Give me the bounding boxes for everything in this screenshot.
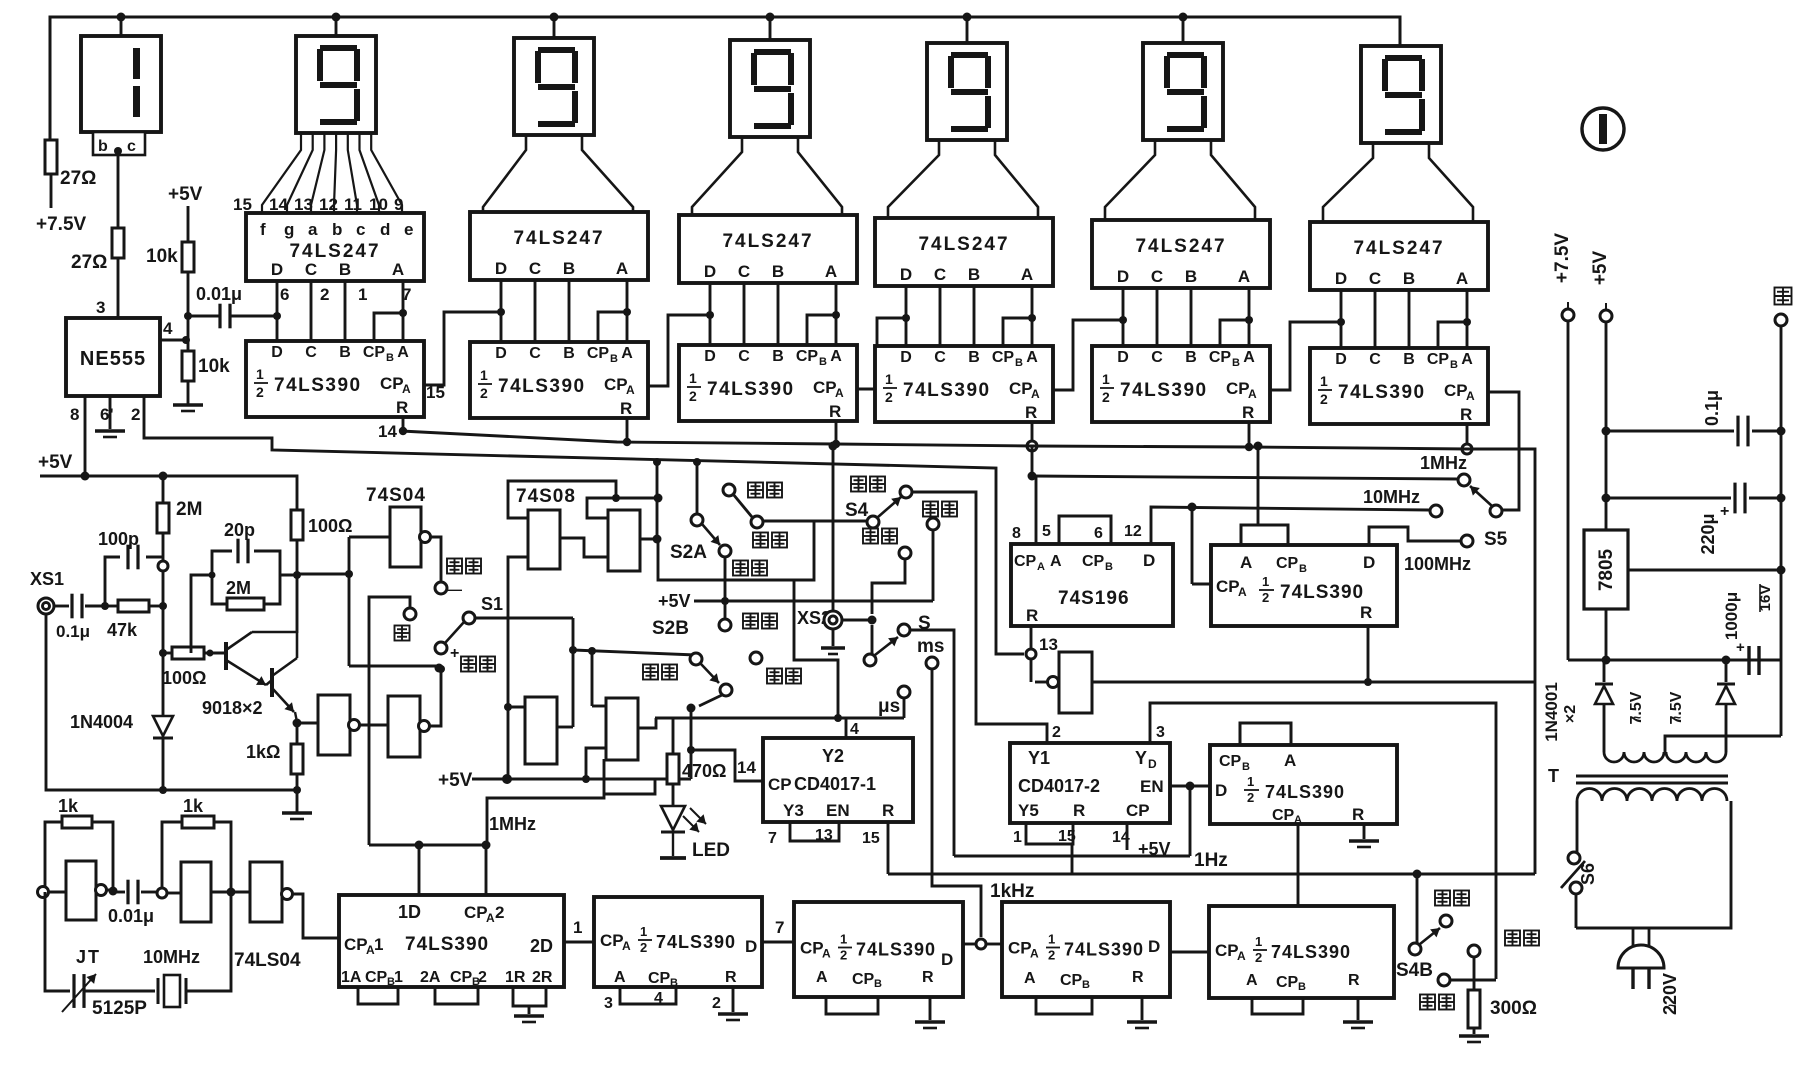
wire primary loop xyxy=(1576,801,1731,928)
svg-text:74LS390: 74LS390 xyxy=(498,376,586,397)
wire funnel display DS5 to U247-4 xyxy=(888,140,1038,218)
wire 10k lower to ground xyxy=(187,381,190,404)
contact ms xyxy=(926,657,938,669)
svg-text:c: c xyxy=(127,138,136,155)
svg-text:D: D xyxy=(1117,349,1129,366)
svg-text:1: 1 xyxy=(1247,774,1254,789)
svg-text:1k: 1k xyxy=(58,796,79,816)
svg-text:CP: CP xyxy=(1060,972,1083,989)
node bus junction x336 xyxy=(332,13,341,22)
transistor Q1 9018 xyxy=(224,642,228,670)
svg-text:D: D xyxy=(900,349,912,366)
wire reset to counters row xyxy=(1093,681,1535,684)
svg-text:f: f xyxy=(260,220,266,239)
svg-text:D: D xyxy=(1215,781,1227,800)
svg-text:B: B xyxy=(968,349,980,366)
wire R stage6 to reset bus xyxy=(1466,424,1469,449)
svg-text:8: 8 xyxy=(1012,525,1021,542)
wire S contact to 1Hz xyxy=(910,630,954,856)
wire 27R to +7.5V xyxy=(50,174,53,208)
svg-text:1: 1 xyxy=(480,367,488,383)
svg-text:B: B xyxy=(1185,349,1197,366)
svg-text:EN: EN xyxy=(826,801,850,820)
svg-text:6: 6 xyxy=(1094,525,1103,542)
svg-text:D: D xyxy=(271,344,283,361)
resistor 300R xyxy=(1473,957,1476,990)
wire gate B upper input xyxy=(587,498,658,518)
svg-text:74LS390: 74LS390 xyxy=(1064,940,1144,960)
wire gate C upper input xyxy=(508,706,525,709)
svg-text:+7.5V: +7.5V xyxy=(36,214,87,235)
svg-text:D: D xyxy=(704,348,716,365)
svg-text:13: 13 xyxy=(1039,635,1058,654)
gate 74S04 G3 xyxy=(359,724,388,727)
node bus junction x770 xyxy=(766,13,775,22)
capacitor 1000u 16V xyxy=(1747,646,1750,675)
svg-text:8: 8 xyxy=(70,405,79,424)
svg-text:b: b xyxy=(332,220,342,239)
contact count lower xyxy=(1468,945,1480,957)
display DS3 digit 9 xyxy=(514,17,594,135)
svg-text:+5V: +5V xyxy=(438,770,473,791)
svg-text:74S196: 74S196 xyxy=(1058,588,1130,609)
svg-text:0.1μ: 0.1μ xyxy=(56,622,90,641)
svg-text:2: 2 xyxy=(640,940,647,955)
IC U390-4 half 74LS390 counter xyxy=(875,346,1053,422)
svg-text:CP: CP xyxy=(1444,381,1468,400)
svg-text:LED: LED xyxy=(692,840,730,861)
svg-text:ms: ms xyxy=(917,636,944,657)
svg-text:C: C xyxy=(934,349,946,366)
wire center tap xyxy=(1665,736,1781,752)
svg-text:9018×2: 9018×2 xyxy=(202,698,263,718)
resistor 10k lower xyxy=(182,351,194,381)
IC U247-5 74LS247 decoder xyxy=(1092,220,1270,288)
svg-text:74LS390: 74LS390 xyxy=(405,934,489,955)
svg-text:74LS247: 74LS247 xyxy=(513,228,604,249)
svg-text:74LS04: 74LS04 xyxy=(234,950,301,971)
svg-text:D: D xyxy=(1148,757,1157,771)
svg-text:+5V: +5V xyxy=(38,452,73,473)
svg-text:A: A xyxy=(1238,585,1247,599)
wire S4 wiper link xyxy=(814,520,867,523)
svg-text:2: 2 xyxy=(480,385,488,401)
svg-text:+5V: +5V xyxy=(168,184,203,205)
svg-text:220μ: 220μ xyxy=(1698,513,1718,554)
svg-text:5: 5 xyxy=(1042,523,1051,540)
node bus junction x554 xyxy=(550,13,559,22)
wire S4 to CD4017-2 pin2 xyxy=(912,492,1047,743)
svg-text:B: B xyxy=(386,352,394,364)
svg-text:1: 1 xyxy=(1320,373,1328,389)
svg-text:C: C xyxy=(934,265,946,284)
wire R pin 13 xyxy=(1030,626,1033,682)
svg-text:1k: 1k xyxy=(183,796,204,816)
svg-text:S2A: S2A xyxy=(670,542,707,563)
IC U247-3 74LS247 decoder xyxy=(679,215,857,283)
svg-text:B: B xyxy=(1450,359,1458,371)
svg-text:2M: 2M xyxy=(226,578,251,598)
wire R stage3 to reset bus xyxy=(835,421,838,444)
svg-text:B: B xyxy=(819,356,827,368)
contact time-base xyxy=(899,547,911,559)
svg-text:1: 1 xyxy=(394,969,403,986)
wire 2D out pin1 xyxy=(564,941,594,944)
svg-text:R: R xyxy=(1026,606,1038,625)
svg-text:R: R xyxy=(882,801,894,820)
svg-text:C: C xyxy=(738,262,750,281)
svg-text:1kHz: 1kHz xyxy=(990,881,1034,902)
svg-text:4: 4 xyxy=(654,990,663,1007)
wire R ground xyxy=(1363,824,1366,839)
svg-text:~: ~ xyxy=(1668,997,1676,1013)
wire funnel display DS3 to U247-2 xyxy=(483,135,633,212)
svg-text:Y3: Y3 xyxy=(783,801,804,820)
svg-text:D: D xyxy=(1117,267,1129,286)
svg-text:R: R xyxy=(1460,405,1472,424)
display DS7 digit 9 xyxy=(1361,46,1441,143)
LED xyxy=(672,784,675,806)
contact pulse-width minus xyxy=(435,582,447,594)
svg-text:0.01μ: 0.01μ xyxy=(196,284,242,304)
wire S4B contact xyxy=(1450,979,1496,982)
transformer core xyxy=(1576,775,1728,778)
svg-text:R: R xyxy=(1360,603,1372,622)
ground NE555 pin6 xyxy=(95,429,125,432)
resistor 27R left xyxy=(45,140,57,174)
svg-text:1kΩ: 1kΩ xyxy=(246,742,280,762)
svg-text:CP: CP xyxy=(852,971,875,988)
svg-text:C: C xyxy=(1151,349,1163,366)
wire pin6 to ground xyxy=(109,396,112,429)
wire R stage4 to reset bus xyxy=(1031,422,1034,446)
svg-text:NE555: NE555 xyxy=(80,348,146,370)
svg-text:2: 2 xyxy=(689,388,697,404)
svg-text:74LS390: 74LS390 xyxy=(1120,380,1208,401)
wire data D C B A stage 5 xyxy=(1123,288,1253,346)
svg-text:C: C xyxy=(529,345,541,362)
node bus junction x121 xyxy=(117,13,126,22)
svg-text:T: T xyxy=(1548,766,1559,786)
IC CD4017-2 xyxy=(1010,743,1170,823)
resistor 10k upper xyxy=(182,242,194,272)
wire 74S196 CPA riser xyxy=(1035,476,1038,544)
wire carry CPA stage1 to D line stage2 xyxy=(424,312,501,385)
svg-text:D: D xyxy=(941,950,953,969)
svg-text:2: 2 xyxy=(131,405,140,424)
svg-text:R: R xyxy=(922,969,934,986)
svg-text:C: C xyxy=(529,259,541,278)
svg-text:EN: EN xyxy=(1140,777,1164,796)
svg-text:13: 13 xyxy=(815,827,833,844)
svg-text:1: 1 xyxy=(689,370,697,386)
svg-text:A: A xyxy=(825,262,837,281)
svg-text:B: B xyxy=(563,345,575,362)
IC NE555 xyxy=(66,318,160,396)
wire R stage1 to reset bus xyxy=(402,417,405,431)
svg-text:A: A xyxy=(1243,349,1255,366)
capacitor 0.1u bypass xyxy=(1606,430,1734,433)
svg-text:1MHz: 1MHz xyxy=(1420,453,1467,473)
node 1kHz junction xyxy=(963,943,975,946)
svg-text:2: 2 xyxy=(320,285,329,304)
wire gate D upper input xyxy=(592,705,606,708)
svg-text:B: B xyxy=(968,265,980,284)
gate 74LS04 osc G2 xyxy=(167,892,181,895)
svg-text:74LS390: 74LS390 xyxy=(1265,782,1345,802)
svg-text:1: 1 xyxy=(573,918,582,937)
svg-text:14: 14 xyxy=(737,758,756,777)
svg-text:4: 4 xyxy=(163,319,173,338)
svg-text:B: B xyxy=(1403,269,1415,288)
svg-text:CP: CP xyxy=(1216,577,1240,596)
svg-text:7: 7 xyxy=(775,918,784,937)
svg-text:2: 2 xyxy=(1048,948,1055,963)
svg-text:S6: S6 xyxy=(1578,863,1598,885)
svg-text:R: R xyxy=(620,399,632,418)
wire reset bus xyxy=(401,431,1535,874)
terminal +7.5V xyxy=(1562,309,1574,321)
svg-text:CP: CP xyxy=(1126,801,1150,820)
IC U390-6 half 74LS390 counter xyxy=(1310,348,1488,424)
svg-text:C: C xyxy=(1369,351,1381,368)
svg-text:1R: 1R xyxy=(505,969,526,986)
svg-text:A: A xyxy=(616,259,628,278)
plug 220V xyxy=(1632,928,1635,947)
svg-text:1: 1 xyxy=(1048,932,1055,947)
svg-text:B: B xyxy=(874,978,882,990)
svg-text:Y: Y xyxy=(1135,748,1147,768)
svg-text:15: 15 xyxy=(862,830,880,847)
wire G3 out to S1 xyxy=(429,672,441,726)
gate 74S08 D xyxy=(606,698,638,760)
wire 1Hz line xyxy=(1189,786,1192,856)
wire S1 plus node line xyxy=(349,665,437,668)
IC U390-E half 74LS390 xyxy=(594,897,762,989)
svg-text:CP: CP xyxy=(800,939,824,958)
capacitor 0.1u input xyxy=(54,605,69,608)
svg-text:CP: CP xyxy=(1209,349,1232,366)
wire primary left / switch S6 xyxy=(1576,801,1579,852)
svg-text:+5V: +5V xyxy=(1590,251,1611,286)
IC U390-H half 74LS390 xyxy=(1209,906,1394,998)
svg-text:+5V: +5V xyxy=(658,591,691,611)
IC U247-4 74LS247 decoder xyxy=(875,218,1053,286)
svg-text:CP: CP xyxy=(1082,553,1105,570)
label frequency S2A xyxy=(733,561,748,576)
svg-text:74LS390: 74LS390 xyxy=(903,380,991,401)
svg-text:—: — xyxy=(448,581,462,597)
svg-text:c: c xyxy=(356,220,365,239)
svg-text:CP: CP xyxy=(344,935,368,954)
svg-text:CP: CP xyxy=(1014,553,1037,570)
diode D2 1N4001 xyxy=(1725,660,1728,682)
IC U390-5 half 74LS390 counter xyxy=(1092,346,1270,422)
svg-text:6': 6' xyxy=(100,405,114,424)
wire 7805 gnd xyxy=(1628,569,1781,572)
svg-text:100p: 100p xyxy=(98,529,139,549)
svg-text:1: 1 xyxy=(1262,574,1269,589)
svg-text:CP: CP xyxy=(1272,807,1295,824)
svg-text:R: R xyxy=(829,402,841,421)
svg-text:D: D xyxy=(1335,351,1347,368)
svg-text:A: A xyxy=(1238,267,1250,286)
svg-text:1: 1 xyxy=(1013,829,1022,846)
svg-text:~: ~ xyxy=(1633,709,1641,725)
svg-text:+: + xyxy=(1720,503,1729,520)
contact 1MHz xyxy=(1458,474,1470,486)
svg-text:47k: 47k xyxy=(107,620,138,640)
svg-text:S2B: S2B xyxy=(652,618,689,639)
svg-text:2: 2 xyxy=(1247,790,1254,805)
gate 74S04 G1 xyxy=(390,507,421,567)
wire feedback to base xyxy=(191,575,212,653)
ground 10k xyxy=(173,403,203,406)
svg-text:R: R xyxy=(1348,972,1360,989)
svg-text:2: 2 xyxy=(1102,389,1110,405)
svg-text:D: D xyxy=(745,937,757,956)
svg-text:D: D xyxy=(495,259,507,278)
wire data D C B A stage 6 xyxy=(1341,290,1471,348)
svg-text:2: 2 xyxy=(712,995,721,1012)
bump U390-B xyxy=(1241,525,1288,545)
wire funnel display DS4 to U247-3 xyxy=(692,137,842,215)
svg-text:A: A xyxy=(1031,387,1040,401)
svg-text:B: B xyxy=(339,260,351,279)
svg-text:3: 3 xyxy=(604,995,613,1012)
label pulse width S2A xyxy=(753,533,768,548)
wire EN D link xyxy=(1170,785,1210,788)
resistor 2M vertical xyxy=(162,476,165,503)
svg-text:100Ω: 100Ω xyxy=(308,516,352,536)
wire data D C B A stage 2 xyxy=(501,280,631,342)
wire gate D lower input xyxy=(586,748,606,779)
svg-text:CP: CP xyxy=(1009,379,1033,398)
svg-text:A: A xyxy=(402,382,411,396)
display DS5 digit 9 xyxy=(927,17,1007,140)
svg-text:B: B xyxy=(1015,357,1023,369)
svg-text:74S08: 74S08 xyxy=(516,486,576,507)
svg-text:R: R xyxy=(1132,969,1144,986)
wire pulse-width to CD4017-1 xyxy=(794,580,838,718)
svg-text:B: B xyxy=(610,353,618,365)
svg-text:A: A xyxy=(622,939,631,953)
svg-text:74LS390: 74LS390 xyxy=(656,932,736,952)
switch S4B xyxy=(1416,874,1419,943)
wire 1MHz gate line xyxy=(1031,446,1034,476)
svg-text:B: B xyxy=(772,262,784,281)
capacitor 220u xyxy=(1606,497,1731,500)
gate 74S08 A xyxy=(528,510,560,569)
gate 74LS04 osc G1 xyxy=(38,887,49,898)
svg-text:JT: JT xyxy=(76,947,101,967)
wire B out xyxy=(640,538,657,541)
svg-text:B: B xyxy=(1105,561,1113,573)
wire gate A lower input riser xyxy=(508,557,529,779)
wire S1 to S2B xyxy=(475,617,573,620)
wire +5V rail xyxy=(1605,322,1608,530)
capacitor 0.01u osc xyxy=(113,891,125,894)
svg-text:74LS390: 74LS390 xyxy=(856,940,936,960)
wire us line xyxy=(655,717,904,720)
IC U247-1 74LS247 decoder xyxy=(246,213,424,281)
svg-text:+: + xyxy=(1736,639,1745,656)
resistor 1k emitter xyxy=(296,723,299,744)
svg-text:74LS247: 74LS247 xyxy=(1135,236,1226,257)
svg-text:CP: CP xyxy=(796,348,819,365)
wire gate D out to us line xyxy=(637,718,656,728)
svg-text:A: A xyxy=(1466,389,1475,403)
svg-text:1: 1 xyxy=(374,935,383,954)
wire pin8 to +5V rail xyxy=(84,396,87,476)
wire G3 to CPA1 xyxy=(292,894,339,938)
svg-text:S4: S4 xyxy=(845,500,869,521)
wire XS2 to node xyxy=(842,619,872,622)
svg-text:B: B xyxy=(1185,267,1197,286)
svg-text:2: 2 xyxy=(1052,724,1061,741)
svg-text:D: D xyxy=(271,260,283,279)
svg-text:74LS247: 74LS247 xyxy=(918,234,1009,255)
svg-text:7: 7 xyxy=(768,830,777,847)
svg-text:+7.5V: +7.5V xyxy=(1552,233,1573,284)
IC U390-G half 74LS390 xyxy=(1002,902,1170,997)
display DS1 digit 1 xyxy=(81,17,161,132)
svg-text:12: 12 xyxy=(1124,523,1142,540)
wire 100MHz contact xyxy=(1369,527,1461,546)
terminal ground xyxy=(1775,314,1787,326)
svg-text:3: 3 xyxy=(1156,724,1165,741)
svg-text:D: D xyxy=(1335,269,1347,288)
gate 74LS04 osc G3 xyxy=(250,862,282,922)
switch S gate-time xyxy=(871,625,874,654)
wire G1 input xyxy=(297,573,349,576)
svg-text:14: 14 xyxy=(378,422,397,441)
IC U390-2 half 74LS390 counter xyxy=(470,342,648,418)
transformer primary xyxy=(1577,789,1727,802)
svg-text:4: 4 xyxy=(850,721,859,738)
svg-text:×2: ×2 xyxy=(1562,705,1579,723)
svg-text:A: A xyxy=(1024,970,1036,987)
svg-text:1N4001: 1N4001 xyxy=(1542,682,1561,742)
svg-text:1MHz: 1MHz xyxy=(489,814,536,834)
svg-text:D: D xyxy=(495,345,507,362)
wire ms to 1kHz node xyxy=(932,669,981,937)
svg-text:A: A xyxy=(1237,949,1246,963)
svg-text:6: 6 xyxy=(280,285,289,304)
contact 10MHz xyxy=(1430,505,1442,517)
svg-text:470Ω: 470Ω xyxy=(682,761,726,781)
svg-text:μs: μs xyxy=(878,696,900,717)
wire pin4 xyxy=(160,339,186,342)
svg-text:CP: CP xyxy=(363,344,386,361)
svg-text:D: D xyxy=(1143,551,1155,570)
IC U390-1 half 74LS390 counter xyxy=(246,341,424,417)
wire carry CPA stage3 to D line stage4 xyxy=(857,318,906,389)
svg-text:20p: 20p xyxy=(224,520,255,540)
wire S2B wiper to +5V xyxy=(699,695,722,706)
svg-text:0.01μ: 0.01μ xyxy=(108,906,154,926)
svg-text:15: 15 xyxy=(426,383,445,402)
svg-text:100MHz: 100MHz xyxy=(1404,554,1471,574)
svg-text:1Hz: 1Hz xyxy=(1194,850,1228,871)
wire ground rail xyxy=(1780,326,1783,660)
svg-text:74LS390: 74LS390 xyxy=(707,379,795,400)
svg-text:D: D xyxy=(1148,937,1160,956)
svg-text:Y2: Y2 xyxy=(822,746,844,766)
svg-text:1: 1 xyxy=(640,924,647,939)
wire fan display DS2 to U247-1 xyxy=(262,133,402,213)
svg-text:A: A xyxy=(1030,947,1039,961)
